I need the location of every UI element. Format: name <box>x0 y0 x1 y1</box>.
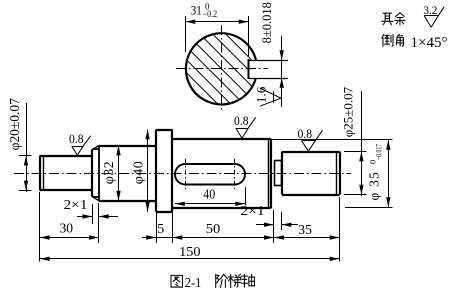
shaft section &#966;32 outline <box>99 145 156 147</box>
svg-text:150: 150 <box>179 245 200 260</box>
dim &#966;20&#177;0.07 <box>26 103 28 192</box>
wire centerline horizontal of section view <box>176 68 268 70</box>
svg-text:2×1: 2×1 <box>64 197 88 212</box>
dim &#966;32 <box>118 146 120 201</box>
svg-text:−0.017: −0.017 <box>374 144 384 160</box>
ext lines below left chamfer <box>92 204 94 224</box>
svg-text:0.8: 0.8 <box>234 113 249 128</box>
dim &#966;40 <box>147 130 149 212</box>
dim &#966;35 0/-0.017 <box>388 140 390 208</box>
main shaft centerline <box>14 173 351 175</box>
keyway slot edges / extension lines <box>249 60 289 62</box>
svg-text:2-1: 2-1 <box>185 276 202 291</box>
svg-text:3.2: 3.2 <box>423 5 437 17</box>
keyway slot (front view) <box>175 164 245 185</box>
note text 其余 (rest of surfaces) <box>382 13 393 24</box>
surface roughness 1.6 on keyway side <box>260 88 281 98</box>
svg-text:1.6: 1.6 <box>254 86 269 103</box>
caption 图2-1 阶梯轴 <box>171 275 182 287</box>
svg-text:2×1: 2×1 <box>241 203 265 218</box>
shaft keyway section &#966;35 outline <box>173 138 271 140</box>
extension line keyway top edge extended <box>272 139 393 141</box>
svg-text:0.8: 0.8 <box>69 131 84 146</box>
svg-text:φ 35: φ 35 <box>367 171 382 200</box>
surface roughness 3.2 symbol <box>424 15 438 17</box>
svg-text:31: 31 <box>191 3 202 18</box>
step face and 2×1 chamfer at &#966;32 left end <box>91 149 93 196</box>
dimension 31 0/-0.2 <box>186 21 249 23</box>
ext lines below shaft <box>39 192 41 262</box>
relief groove 2×1 between sections <box>274 160 276 185</box>
roughness 0.8 on keyway section <box>236 128 248 130</box>
svg-text:φ32: φ32 <box>102 161 117 185</box>
roughness 0.8 on &#966;25 <box>302 140 316 142</box>
svg-text:5: 5 <box>157 222 164 237</box>
svg-text:φ20±0.07: φ20±0.07 <box>7 98 22 151</box>
shaft section &#966;25 outline <box>281 152 283 195</box>
svg-text:1×45°: 1×45° <box>411 35 448 51</box>
svg-text:0.8: 0.8 <box>298 126 313 141</box>
wire centerline vertical of section view <box>221 25 223 113</box>
extension line keyway bottom edge extended <box>345 207 393 209</box>
shaft section &#966;20 outline <box>39 156 41 191</box>
dim &#966;25&#177;0.07 <box>361 91 363 196</box>
shaft flange &#966;40 outline <box>155 130 157 212</box>
note text 倒角 1×45° (chamfer) <box>382 34 393 46</box>
svg-text:40: 40 <box>203 188 215 203</box>
svg-text:φ25±0.07: φ25±0.07 <box>341 86 356 137</box>
dim &#966;20&#177;0.07 extension ticks <box>19 155 32 157</box>
svg-text:35: 35 <box>298 223 312 238</box>
svg-text:φ40: φ40 <box>132 161 147 185</box>
roughness 0.8 on &#966;20 <box>72 146 83 148</box>
svg-text:8±0.018: 8±0.018 <box>260 2 274 43</box>
svg-text:−0.2: −0.2 <box>203 9 218 19</box>
extension lines for dim 31 <box>185 16 187 52</box>
dimension 8&#177;0.018 keyway width <box>281 36 283 107</box>
svg-text:50: 50 <box>206 222 221 237</box>
svg-text:30: 30 <box>60 222 74 237</box>
dim &#966;25&#177;0.07 ticks <box>344 151 367 153</box>
keyway arc center marks <box>185 159 187 190</box>
